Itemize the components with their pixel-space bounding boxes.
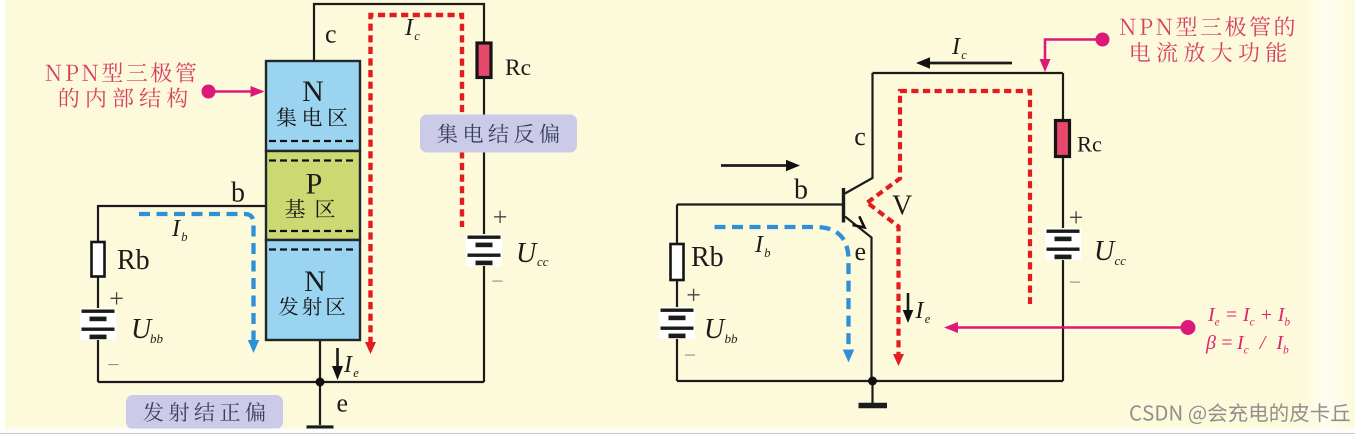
pink title line2 的内部结构 xyxy=(60,88,188,108)
svg-text:+: + xyxy=(686,281,701,310)
wire: transistor base bar xyxy=(842,188,845,223)
wire: left branch top (b to Rb) xyxy=(97,205,99,242)
wire: Ucc to bottom rail (right) xyxy=(1062,260,1064,381)
battery Ubb (right circuit) xyxy=(659,307,695,339)
node: emitter junction dot (left) xyxy=(316,378,325,387)
black Ic arrowhead (right) xyxy=(916,57,930,69)
NPN structure: N collector region (blue) xyxy=(266,61,360,151)
junction dashed line (emitter side) xyxy=(269,248,357,250)
wire: collector lead xyxy=(845,73,873,194)
junction dashed line (collector side) xyxy=(269,140,357,142)
label text 发射结正偏 xyxy=(144,402,266,422)
black Ie arrow shaft (left) xyxy=(336,348,339,368)
wire: Ubb to bottom rail xyxy=(97,336,99,382)
pink polyline (top right annotation) xyxy=(1045,40,1103,61)
svg-text:e: e xyxy=(855,237,867,266)
junction dashed line (base top) xyxy=(269,159,357,161)
wire: emitter lead xyxy=(845,217,872,382)
svg-text:b: b xyxy=(181,230,187,244)
blue dashed Ib path (right circuit) xyxy=(715,227,849,352)
pink dot (formula annotation) xyxy=(1181,320,1196,335)
NPN structure: P base region (green) xyxy=(266,151,360,240)
black Ie arrowhead (left) xyxy=(332,366,343,380)
svg-text:I: I xyxy=(915,298,925,324)
pink arrowhead (left annotation) xyxy=(251,86,265,97)
black base arrow shaft (right) xyxy=(721,164,787,167)
junction dashed line (base bottom) xyxy=(269,230,357,232)
battery Ubb (left circuit) xyxy=(80,308,116,340)
svg-text:Rc: Rc xyxy=(505,55,531,81)
left white edge strip xyxy=(0,0,5,434)
wire: left branch b to Rb (right) xyxy=(676,205,678,245)
svg-text:bb: bb xyxy=(150,331,164,346)
wire: left top loop (collector to Rc branch) xyxy=(314,4,484,61)
red dashed Ic path (left circuit) xyxy=(371,15,463,344)
blue arrow down (right Ib) xyxy=(843,350,855,363)
label 发射区 xyxy=(279,297,345,316)
wire: Rc to Ucc (right) xyxy=(1062,157,1064,229)
resistor Rc (right circuit) xyxy=(1056,121,1070,157)
svg-text:N: N xyxy=(304,265,326,298)
emitter arrowhead chevron (transistor V) xyxy=(852,216,867,231)
svg-text:−: − xyxy=(107,352,119,377)
wire: ground stem (right) xyxy=(871,381,873,403)
red dashed Ic loop upper (right circuit) xyxy=(868,91,1031,304)
red arrow down (right path) xyxy=(893,354,904,366)
battery Ucc (left circuit) xyxy=(466,234,502,266)
node: emitter junction dot (right) xyxy=(868,377,877,386)
pink dot (top right annotation) xyxy=(1096,33,1110,47)
svg-text:+: + xyxy=(1069,203,1084,232)
svg-text:I: I xyxy=(343,352,353,378)
pink arrow shaft (left annotation) xyxy=(209,90,252,93)
svg-text:cc: cc xyxy=(537,254,549,269)
black Ie arrow shaft (right) xyxy=(907,293,910,312)
pink arrowhead down (top right) xyxy=(1040,59,1051,72)
wire: Ubb to bottom rail (right) xyxy=(676,337,678,381)
wire: base wire b to region box xyxy=(98,205,266,207)
svg-text:e: e xyxy=(353,366,359,380)
svg-text:Rb: Rb xyxy=(117,245,150,276)
label 基区 xyxy=(285,199,334,218)
svg-text:I: I xyxy=(404,15,414,41)
svg-text:V: V xyxy=(892,191,912,222)
svg-text:−: − xyxy=(1069,269,1081,294)
svg-text:Rc: Rc xyxy=(1077,132,1102,157)
svg-text:U: U xyxy=(516,238,538,269)
wire: base wire xyxy=(677,203,844,205)
CSDN watermark xyxy=(1130,403,1350,424)
bottom white strip xyxy=(0,429,1355,434)
label box 集电结反偏 xyxy=(420,115,577,153)
wire: Rb to Ubb xyxy=(97,277,99,311)
NPN structure: N emitter region (blue) xyxy=(266,240,360,340)
svg-text:e: e xyxy=(925,312,931,326)
svg-text:c: c xyxy=(854,122,866,151)
pink title line1 NPN型三极管 xyxy=(46,62,196,82)
pink title right line2 电流放大功能 xyxy=(1132,42,1287,63)
svg-text:I: I xyxy=(951,34,961,60)
svg-text:b: b xyxy=(794,175,808,206)
svg-text:+: + xyxy=(493,203,508,232)
wire: ground stem horizontal bar xyxy=(307,425,334,430)
svg-text:c: c xyxy=(961,48,967,62)
wire: Rb to Ubb (right) xyxy=(676,280,678,307)
wire: right branch top to Rc xyxy=(1062,73,1064,121)
svg-text:I: I xyxy=(171,216,181,242)
label box 发射结正偏 xyxy=(126,395,283,429)
svg-text:e: e xyxy=(337,389,349,418)
svg-text:P: P xyxy=(306,168,323,201)
pink arrowhead left (formula) xyxy=(944,322,958,333)
black Ic arrow shaft (right) xyxy=(929,62,1012,65)
svg-text:Rb: Rb xyxy=(691,242,724,273)
wire: ground bar (right) xyxy=(859,403,888,409)
svg-text:cc: cc xyxy=(1115,253,1127,268)
svg-text:c: c xyxy=(414,29,420,43)
pink title right line1 NPN型三极管的 xyxy=(1120,16,1295,36)
wire: bottom rail xyxy=(98,381,484,383)
blue arrow down (left Ib path) xyxy=(248,340,260,353)
svg-text:b: b xyxy=(764,246,770,260)
wire: Rc to Ucc battery xyxy=(483,78,485,235)
svg-text:U: U xyxy=(704,314,726,345)
svg-text:bb: bb xyxy=(725,331,739,346)
battery Ucc (right circuit) xyxy=(1045,228,1081,260)
svg-text:N: N xyxy=(302,75,324,108)
blue dashed Ib path (left circuit) xyxy=(139,214,254,343)
resistor Rc (left circuit) xyxy=(477,43,491,78)
wire: bottom rail (right) xyxy=(677,380,1063,382)
black base arrowhead (right) xyxy=(786,160,800,172)
svg-text:−: − xyxy=(491,268,503,293)
red arrow down (left Ic path) xyxy=(365,342,376,354)
resistor Rb (left circuit) xyxy=(92,242,105,277)
label text 集电结反偏 xyxy=(438,124,559,144)
svg-text:−: − xyxy=(684,342,696,367)
resistor Rb (right circuit) xyxy=(671,244,684,280)
svg-text:U: U xyxy=(1094,236,1116,267)
wire: top rail (right circuit) xyxy=(873,72,1064,74)
bottom edge line xyxy=(0,433,1355,434)
svg-text:I: I xyxy=(754,232,764,258)
svg-text:+: + xyxy=(109,284,124,313)
pink arrow shaft (formula) xyxy=(956,326,1188,328)
label 集电区 xyxy=(277,107,347,127)
red dashed Ie branch lower (right circuit) xyxy=(869,204,899,355)
wire: emitter lead down from box xyxy=(319,340,321,425)
wire: Ucc to bottom rail xyxy=(483,266,485,382)
black Ie arrowhead (right) xyxy=(903,310,914,323)
svg-text:b: b xyxy=(231,178,245,209)
svg-text:c: c xyxy=(325,20,337,49)
pink dot (left annotation) xyxy=(202,85,216,99)
